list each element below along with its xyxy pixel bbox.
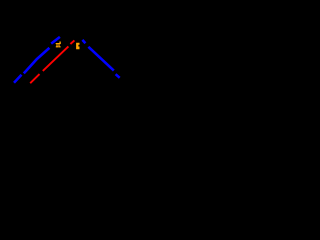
wire [30,74,39,83]
red dashed diagonal line [30,40,74,83]
wire [43,46,69,71]
wire [70,40,74,44]
wire [88,47,113,71]
orange label glyph 1 (pi-like mark) [56,42,61,48]
wire [51,37,60,44]
wire [14,75,22,83]
wire [24,48,50,74]
wire [82,40,85,43]
blue dashed tent curve, right branch [82,40,119,78]
blue dashed tent curve, left branch [14,37,60,83]
wire [116,74,120,78]
orange label glyph 2 (block mark) [76,43,79,50]
